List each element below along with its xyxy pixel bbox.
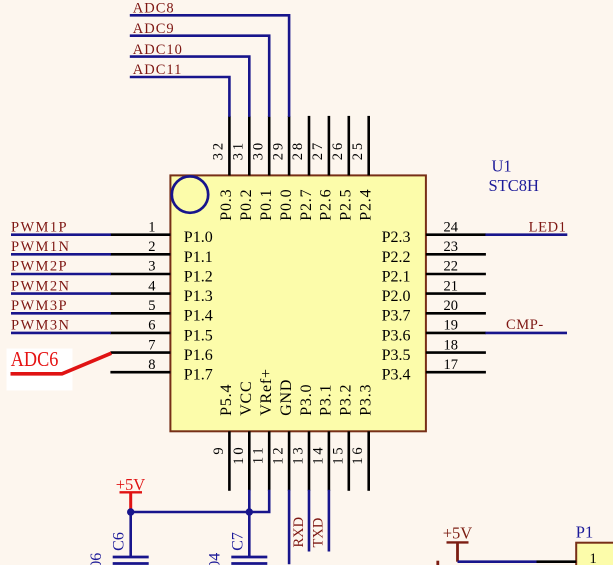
svg-text:ADC6: ADC6	[11, 347, 59, 371]
svg-text:P0.2: P0.2	[238, 189, 255, 221]
svg-text:3: 3	[148, 259, 155, 275]
svg-text:P3.7: P3.7	[382, 308, 411, 325]
pin 15 (P3.2) bottom	[330, 384, 354, 491]
designator U1	[492, 157, 512, 176]
net label PWM2N	[11, 278, 70, 294]
svg-text:P5.4: P5.4	[218, 384, 235, 416]
pin 2 (P1.1) left	[110, 239, 212, 266]
clipped wire stub (bottom)	[436, 561, 439, 565]
svg-text:STC8H: STC8H	[489, 176, 540, 195]
svg-text:16: 16	[350, 445, 366, 465]
wire net PWM2N	[11, 292, 111, 295]
svg-text:27: 27	[310, 140, 326, 160]
svg-text:25: 25	[350, 140, 366, 160]
pin 18 (P3.5) right	[382, 337, 486, 364]
power port +5V (left)	[116, 475, 146, 510]
capacitor C7	[231, 512, 267, 564]
net label PWM1N	[11, 239, 70, 255]
net label PWM3N	[11, 318, 70, 334]
net label PWM3P	[11, 298, 68, 314]
svg-text:20: 20	[444, 298, 459, 314]
wire net CMP-	[485, 332, 567, 335]
svg-text:PWM2P: PWM2P	[11, 259, 68, 275]
IC U1 STC8H body	[170, 175, 426, 431]
pin 9 (P5.4) bottom	[211, 384, 235, 491]
svg-text:ADC9: ADC9	[133, 21, 175, 37]
pin 14 (P3.1) bottom	[310, 384, 334, 491]
svg-text:P1.5: P1.5	[184, 327, 213, 344]
power port +5V (right)	[443, 523, 473, 561]
svg-text:P2.5: P2.5	[338, 189, 355, 221]
wire net ADC8	[130, 15, 289, 117]
svg-text:P1.3: P1.3	[184, 288, 213, 305]
svg-text:8: 8	[148, 357, 155, 373]
svg-text:23: 23	[444, 239, 459, 255]
net label ADC11	[133, 62, 183, 78]
svg-text:10: 10	[231, 445, 247, 465]
svg-text:PWM1N: PWM1N	[11, 239, 70, 255]
pin 17 (P3.4) right	[382, 357, 486, 384]
wire net RXD pin13	[308, 490, 311, 552]
svg-text:P2.6: P2.6	[318, 189, 335, 221]
wire net PWM2P	[11, 273, 111, 276]
svg-text:ADC11: ADC11	[133, 62, 183, 78]
value 106 (C6)	[88, 553, 105, 565]
svg-text:19: 19	[444, 318, 459, 334]
net label CMP-	[506, 317, 544, 333]
svg-text:P1.6: P1.6	[184, 347, 213, 364]
wire net ADC9	[130, 36, 269, 117]
U1 pin-1 marker circle	[172, 176, 208, 212]
svg-text:104: 104	[207, 553, 224, 565]
svg-text:P2.7: P2.7	[298, 189, 315, 221]
pin 13 (P3.0) bottom	[291, 384, 315, 491]
wire net ADC11	[130, 77, 230, 117]
svg-text:RXD: RXD	[291, 517, 307, 548]
svg-text:21: 21	[444, 278, 459, 294]
junction at VCC/C7	[246, 508, 253, 515]
wire net PWM3P	[11, 312, 111, 315]
svg-text:P1.2: P1.2	[184, 268, 213, 285]
designator C7	[229, 532, 246, 551]
pin 31 (P0.2) top	[231, 116, 256, 221]
pin 12 (GND) bottom	[271, 379, 295, 491]
pin 6 (P1.5) left	[110, 318, 212, 345]
pin 10 (VCC) bottom	[231, 380, 255, 490]
svg-text:14: 14	[310, 445, 326, 465]
svg-text:P3.4: P3.4	[382, 367, 411, 384]
svg-text:C7: C7	[229, 532, 246, 551]
net label ADC9	[133, 21, 175, 37]
svg-text:31: 31	[231, 140, 247, 160]
svg-text:106: 106	[88, 553, 105, 565]
wire VRef+ pin11 to +5V rail	[249, 490, 269, 512]
svg-text:PWM3N: PWM3N	[11, 318, 70, 334]
svg-text:4: 4	[148, 278, 156, 294]
pin 3 (P1.2) left	[110, 259, 212, 286]
wire VCC pin10 to +5V rail	[248, 490, 251, 512]
pin 11 (VRef+) bottom	[251, 368, 275, 491]
svg-text:TXD: TXD	[311, 518, 327, 548]
wire net ADC10	[130, 57, 250, 117]
pin 8 (P1.7) left	[110, 357, 212, 384]
svg-text:13: 13	[291, 445, 307, 465]
svg-text:9: 9	[211, 445, 227, 455]
svg-text:P2.2: P2.2	[382, 249, 411, 266]
pin 20 (P3.7) right	[382, 298, 486, 325]
svg-text:GND: GND	[278, 379, 295, 416]
net label ADC8	[133, 1, 175, 17]
highlight box behind ADC6	[7, 349, 73, 391]
svg-text:2: 2	[148, 239, 155, 255]
svg-text:P2.0: P2.0	[382, 288, 411, 305]
svg-text:P3.3: P3.3	[358, 384, 375, 416]
wire net PWM1N	[11, 253, 111, 256]
pin 7 (P1.6) left	[110, 337, 212, 364]
svg-text:P1.7: P1.7	[184, 367, 213, 384]
pin 5 (P1.4) left	[110, 298, 212, 325]
pin 32 (P0.3) top	[211, 116, 236, 221]
svg-text:1: 1	[590, 551, 597, 565]
pin 25 (P2.4) top	[350, 116, 375, 221]
net label RXD	[291, 517, 307, 548]
pin 29 (P0.0) top	[270, 116, 295, 221]
svg-text:29: 29	[270, 140, 286, 160]
net label ADC10	[133, 42, 183, 58]
wire +5V to P1 pin1	[458, 560, 537, 563]
svg-text:U1: U1	[492, 157, 512, 176]
svg-text:+5V: +5V	[443, 523, 473, 542]
svg-text:PWM1P: PWM1P	[11, 219, 68, 235]
svg-text:32: 32	[211, 140, 227, 160]
svg-text:26: 26	[330, 140, 346, 160]
wire net PWM1P	[11, 233, 111, 236]
svg-text:P2.3: P2.3	[382, 229, 411, 246]
pin 16 (P3.3) bottom	[350, 384, 374, 491]
svg-text:ADC8: ADC8	[133, 1, 175, 17]
pin 4 (P1.3) left	[110, 278, 212, 305]
svg-text:PWM2N: PWM2N	[11, 278, 70, 294]
svg-text:22: 22	[444, 259, 459, 275]
svg-text:17: 17	[444, 357, 459, 373]
svg-text:P3.6: P3.6	[382, 327, 411, 344]
svg-text:P3.1: P3.1	[318, 384, 335, 416]
svg-text:28: 28	[290, 140, 306, 160]
svg-text:P0.1: P0.1	[258, 189, 275, 221]
pin 28 (P2.7) top	[290, 116, 315, 221]
designator C6	[111, 532, 128, 551]
pin 24 (P2.3) right	[382, 219, 486, 246]
svg-text:30: 30	[250, 140, 266, 160]
junction at C6/+5V	[127, 508, 134, 515]
svg-text:5: 5	[148, 298, 155, 314]
svg-text:P1.0: P1.0	[184, 229, 213, 246]
pin 1 (P1.0) left	[110, 219, 212, 246]
svg-text:PWM3P: PWM3P	[11, 298, 68, 314]
svg-text:P1.1: P1.1	[184, 249, 213, 266]
svg-text:CMP-: CMP-	[506, 317, 544, 333]
svg-text:18: 18	[444, 337, 459, 353]
svg-text:11: 11	[251, 445, 267, 465]
net label LED1	[529, 219, 567, 235]
net label PWM2P	[11, 259, 68, 275]
capacitor C6	[113, 512, 149, 564]
pin 30 (P0.1) top	[250, 116, 275, 221]
svg-text:P2.4: P2.4	[358, 189, 375, 221]
net label PWM1P	[11, 219, 68, 235]
svg-text:P3.0: P3.0	[298, 384, 315, 416]
value 104 (C7)	[207, 553, 224, 565]
svg-text:ADC10: ADC10	[133, 42, 183, 58]
svg-text:VRef+: VRef+	[258, 368, 275, 416]
wire GND pin12 down	[288, 490, 291, 564]
svg-text:P1.4: P1.4	[184, 308, 213, 325]
pin 22 (P2.1) right	[382, 259, 486, 286]
svg-text:P2.1: P2.1	[382, 268, 411, 285]
svg-text:VCC: VCC	[238, 380, 255, 415]
wire +5V rail	[131, 511, 250, 514]
pin 26 (P2.5) top	[330, 116, 355, 221]
svg-text:1: 1	[148, 219, 155, 235]
pin 23 (P2.2) right	[382, 239, 486, 266]
net label TXD	[311, 518, 327, 548]
svg-text:P0.3: P0.3	[218, 189, 235, 221]
connector P1 body	[576, 543, 613, 565]
svg-text:LED1: LED1	[529, 219, 567, 235]
wire net PWM3N	[11, 332, 111, 335]
svg-text:24: 24	[444, 219, 459, 235]
designator P1	[576, 522, 593, 541]
svg-text:15: 15	[330, 445, 346, 465]
net label ADC6 (highlighted)	[11, 347, 59, 371]
svg-text:P1: P1	[576, 522, 593, 541]
svg-text:C6: C6	[111, 532, 128, 551]
wire net TXD pin14	[328, 490, 331, 552]
pin 21 (P2.0) right	[382, 278, 486, 305]
wire net ADC6 (highlighted red)	[11, 353, 112, 374]
svg-text:P3.5: P3.5	[382, 347, 411, 364]
svg-text:6: 6	[148, 318, 155, 334]
pin 27 (P2.6) top	[310, 116, 335, 221]
pin 19 (P3.6) right	[382, 318, 486, 345]
wire net LED1	[485, 233, 567, 236]
svg-text:7: 7	[148, 337, 155, 353]
svg-text:12: 12	[271, 445, 287, 465]
value STC8H	[489, 176, 540, 195]
svg-text:+5V: +5V	[116, 475, 146, 494]
pin 1 of P1	[537, 551, 597, 565]
svg-text:P0.0: P0.0	[278, 189, 295, 221]
svg-text:P3.2: P3.2	[338, 384, 355, 416]
